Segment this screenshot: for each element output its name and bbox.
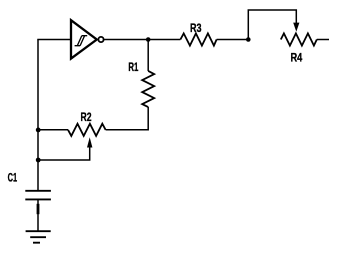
op-amp U1 (Schmitt-trigger inverter)	[71, 20, 104, 58]
node junction rail/wiper	[36, 158, 41, 163]
capacitor C1	[25, 191, 51, 200]
svg-text:R3: R3	[190, 21, 202, 35]
wire R4 output	[317, 39, 329, 41]
wire R2 wiper return	[38, 147, 90, 161]
svg-text:R1: R1	[128, 60, 138, 74]
wire R4 wiper loop	[248, 10, 296, 40]
wiper arrow R2	[87, 137, 92, 147]
resistor R4	[281, 33, 317, 45]
svg-text:R4: R4	[291, 50, 303, 64]
wiper arrow R4	[293, 23, 299, 32]
svg-text:C1: C1	[8, 170, 18, 184]
resistor R2 (potentiometer)	[68, 124, 106, 136]
wire C1 to ground	[37, 199, 39, 231]
wire C1 lead thick segment	[37, 204, 40, 214]
wire R1 bottom to R2	[106, 107, 149, 130]
resistor R1	[142, 71, 154, 107]
wire inverter input	[37, 39, 70, 41]
ground	[26, 231, 51, 243]
wire R3 to node	[217, 39, 249, 41]
resistor R3	[180, 33, 216, 45]
wire inverter output	[104, 39, 181, 41]
node junction R3/R4	[246, 37, 251, 42]
node junction rail/R2	[36, 127, 41, 132]
wire left rail	[37, 40, 39, 191]
svg-text:R2: R2	[81, 110, 92, 124]
wire R2 left	[38, 129, 68, 131]
node junction output/R1	[146, 37, 151, 42]
wire R1 top	[147, 40, 149, 72]
